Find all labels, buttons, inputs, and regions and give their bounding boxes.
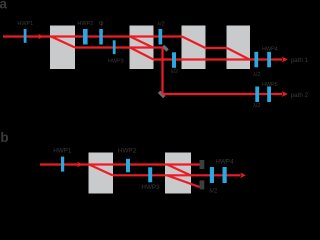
svg-text:HWP4: HWP4 — [262, 46, 278, 52]
waveplate HWP5 (a) — [267, 87, 271, 103]
wire walk-off in BD1 — [51, 37, 75, 48]
waveplate lambda/2 path1 — [254, 52, 258, 68]
wire vertical drop — [161, 48, 163, 95]
beam dump upper (b) — [200, 160, 205, 169]
beam dump lower (b) — [200, 180, 205, 189]
mirror M2 — [158, 91, 166, 99]
waveplate phi (a) — [99, 29, 103, 45]
wire between BD3 and BD4 — [206, 47, 228, 49]
waveplate lambda/2 lower (a) — [172, 52, 176, 68]
svg-text:path 1: path 1 — [291, 57, 309, 64]
beam displacer BD4 — [227, 26, 251, 70]
waveplate lambda/2 path2 — [255, 87, 259, 103]
svg-text:λ/2: λ/2 — [171, 69, 178, 75]
svg-text:HWP5: HWP5 — [262, 82, 278, 88]
waveplate HWP1 (b) — [61, 157, 64, 172]
svg-text:HWP3: HWP3 — [141, 184, 160, 191]
beam displacer BD1 (b) — [89, 153, 114, 194]
svg-text:HWP4: HWP4 — [215, 159, 234, 166]
wire walk-off in BD4 — [227, 48, 250, 60]
waveplate HWP3 (a) — [113, 40, 116, 54]
arrowhead path 1 — [282, 57, 288, 63]
waveplate HWP1 (a) — [24, 29, 27, 43]
waveplate lambda/2 (b) — [210, 167, 214, 183]
wire bottom beam a — [154, 58, 283, 60]
waveplate HWP2 (b) — [126, 159, 130, 173]
wire walk-off in BD1 (b) — [89, 165, 113, 176]
wire input beam a — [3, 35, 182, 37]
svg-text:path 2: path 2 — [291, 92, 309, 99]
svg-text:b: b — [0, 130, 8, 145]
svg-text:λ/2: λ/2 — [157, 21, 164, 27]
wire lower beam a — [75, 46, 163, 48]
svg-text:λ/2: λ/2 — [253, 103, 260, 109]
waveplate HWP3 (b) — [148, 167, 152, 182]
svg-text:HWP2: HWP2 — [77, 21, 93, 27]
svg-text:φ: φ — [99, 20, 104, 27]
beam displacer BD3 — [182, 26, 206, 70]
arrowhead path 2 — [282, 91, 288, 97]
wire walk-off upper in BD2 — [130, 37, 153, 48]
waveplate HWP4 (a) — [267, 52, 271, 68]
waveplate HWP4 (b) — [223, 167, 227, 183]
wire walk-off lower in BD2 (b) — [167, 175, 200, 187]
svg-text:HWP2: HWP2 — [118, 147, 137, 154]
beam displacer BD2 (b) — [165, 153, 191, 194]
wire input beam b — [40, 163, 200, 165]
waveplate lambda/2 upper (a) — [159, 29, 163, 45]
arrowhead input b — [77, 162, 83, 168]
svg-text:HWP3: HWP3 — [108, 59, 124, 65]
arrowhead input a — [38, 34, 44, 40]
wire lower beam b — [113, 174, 241, 176]
svg-text:λ/2: λ/2 — [253, 72, 260, 78]
svg-text:a: a — [0, 0, 7, 12]
wire walk-off in BD3 — [182, 37, 206, 49]
wire walk-off lower in BD2 — [130, 48, 154, 60]
wire walk-off upper in BD2 (b) — [167, 165, 191, 176]
svg-text:HWP1: HWP1 — [53, 147, 72, 154]
beam displacer BD1 — [50, 26, 75, 70]
beam displacer BD2 — [130, 26, 154, 70]
svg-text:HWP1: HWP1 — [17, 21, 33, 27]
mirror M1 — [162, 45, 169, 52]
waveplate HWP2 (a) — [83, 29, 88, 45]
wire path 2 beam — [163, 93, 283, 95]
arrowhead output b — [240, 173, 246, 179]
svg-text:λ/2: λ/2 — [209, 187, 218, 194]
